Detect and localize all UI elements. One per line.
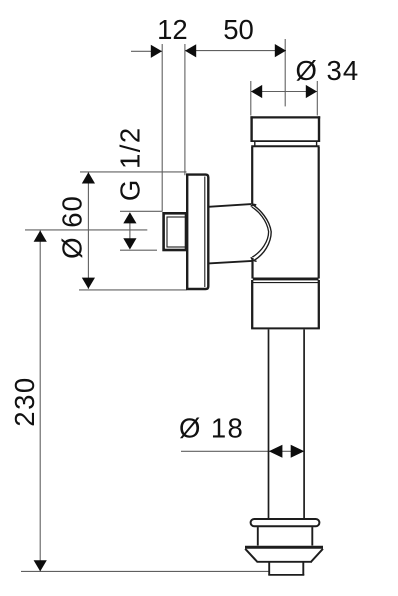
svg-text:Ø 18: Ø 18 <box>179 413 244 444</box>
svg-text:12: 12 <box>157 14 188 45</box>
svg-text:Ø 34: Ø 34 <box>296 55 360 86</box>
svg-text:230: 230 <box>9 376 40 426</box>
svg-text:Ø 60: Ø 60 <box>57 195 88 259</box>
svg-text:G 1/2: G 1/2 <box>115 126 146 201</box>
svg-text:50: 50 <box>223 14 254 45</box>
